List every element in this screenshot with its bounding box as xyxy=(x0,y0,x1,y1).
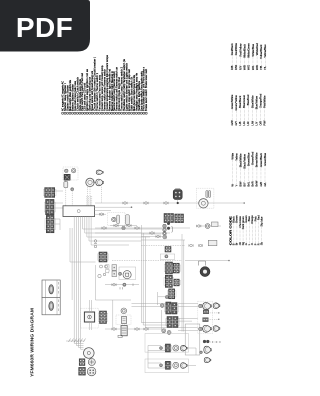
hl connector 2 xyxy=(203,318,209,322)
svg-text:Red/Black: Red/Black xyxy=(230,43,234,56)
wire xyxy=(91,196,93,206)
wire xyxy=(203,312,219,314)
wire xyxy=(105,328,166,330)
svg-text:Black/Yellow: Black/Yellow xyxy=(243,154,247,169)
connector block J16 xyxy=(171,303,179,314)
wire xyxy=(71,228,73,300)
parts legend (rotated numbered list) xyxy=(62,54,149,114)
wire xyxy=(82,228,84,229)
wire xyxy=(148,345,161,347)
svg-text:Blue/Red: Blue/Red xyxy=(246,94,250,105)
tail lamp connectors xyxy=(203,340,210,343)
inline connector xyxy=(156,235,160,238)
wire xyxy=(89,240,141,242)
connector block J7 xyxy=(164,262,174,274)
connector block J9 xyxy=(164,275,174,287)
bracket xyxy=(172,226,173,233)
wire xyxy=(83,228,162,230)
wire xyxy=(88,228,90,241)
terminal xyxy=(167,331,171,335)
terminal xyxy=(165,296,168,299)
contact dot xyxy=(167,222,170,225)
wire xyxy=(110,225,137,227)
CDI unit xyxy=(63,206,95,217)
svg-text:Pink/White: Pink/White xyxy=(262,95,266,108)
colour code column 2 (rotated) xyxy=(230,93,266,125)
wire xyxy=(86,217,88,229)
wire xyxy=(161,310,163,330)
inline connector xyxy=(135,328,139,331)
fuse body xyxy=(125,215,129,225)
indicator bulb 1 xyxy=(96,170,103,175)
svg-text:White/Red: White/Red xyxy=(255,43,259,56)
wire xyxy=(112,300,114,329)
connector block JH2 xyxy=(175,214,184,223)
main switch xyxy=(123,271,131,279)
svg-text:L/Y: L/Y xyxy=(254,121,258,125)
tick symbols xyxy=(120,284,133,290)
starter relay enclosure xyxy=(116,315,131,325)
connector block JH1 xyxy=(164,214,174,223)
connector block J2 xyxy=(44,199,55,214)
svg-text:Yellow/Black: Yellow/Black xyxy=(259,44,263,59)
wire xyxy=(178,306,198,308)
magneto connector 4 xyxy=(87,367,96,376)
inline connector xyxy=(123,283,126,286)
inline connector xyxy=(197,225,201,228)
terminal xyxy=(162,329,166,333)
PDF badge xyxy=(0,0,90,52)
wire xyxy=(59,219,61,230)
wire xyxy=(90,300,92,312)
svg-text:G/B: G/B xyxy=(259,182,263,187)
inline connector xyxy=(127,224,131,227)
relay connector xyxy=(121,308,127,314)
wire xyxy=(84,217,86,229)
inline connector xyxy=(102,227,106,230)
svg-text:Green/White: Green/White xyxy=(230,94,234,109)
wire xyxy=(185,260,229,262)
lead bracket xyxy=(93,179,95,183)
wire xyxy=(70,261,96,263)
wire xyxy=(132,303,166,305)
wire xyxy=(88,322,90,330)
junction dot xyxy=(131,206,133,208)
headlight lens 1 xyxy=(213,303,220,309)
wire xyxy=(178,320,192,322)
tail terminal xyxy=(200,351,203,354)
wire xyxy=(145,327,167,329)
inline connector xyxy=(122,226,125,229)
connector block J13 xyxy=(98,252,109,262)
terminal xyxy=(119,272,122,275)
inline connector xyxy=(164,202,168,205)
wire xyxy=(80,217,82,229)
svg-text:Brown/White: Brown/White xyxy=(255,152,259,167)
wire xyxy=(77,217,79,229)
wire xyxy=(84,228,86,233)
junction box xyxy=(185,324,200,355)
colour code column 1 (rotated) xyxy=(230,43,267,70)
ignition coil enclosure xyxy=(63,167,78,180)
svg-text:Br/L: Br/L xyxy=(247,181,251,186)
wire xyxy=(95,227,190,229)
svg-text:L/G: L/G xyxy=(242,121,246,125)
wire xyxy=(148,350,165,352)
svg-text:G/Y: G/Y xyxy=(234,121,238,126)
headlight lens 2 xyxy=(213,326,220,332)
coil terminal xyxy=(65,169,68,172)
wire xyxy=(73,217,75,229)
svg-text:G/L: G/L xyxy=(263,182,267,187)
tail/brake light 2 xyxy=(204,357,211,362)
connector block J10 xyxy=(173,279,181,286)
fan motor brushes xyxy=(206,191,211,198)
breaker terminal xyxy=(112,217,116,221)
wire xyxy=(65,188,67,206)
coil lead connector xyxy=(71,188,74,191)
horn bracket xyxy=(199,261,206,266)
wire xyxy=(178,327,198,329)
inline connector xyxy=(198,244,202,247)
relay terminal xyxy=(165,255,168,258)
battery xyxy=(118,326,127,338)
headlight connector 1 xyxy=(199,304,202,307)
svg-text:Green/Blue: Green/Blue xyxy=(263,152,267,166)
connector block J19 xyxy=(164,361,172,369)
svg-text:Brown/Red: Brown/Red xyxy=(251,151,255,164)
svg-text:Sb: Sb xyxy=(260,241,264,245)
wire xyxy=(82,217,84,229)
wire xyxy=(203,318,219,320)
svg-text:R/W: R/W xyxy=(234,64,238,70)
wire xyxy=(177,200,179,204)
contact dot xyxy=(167,227,170,230)
svg-text:Green/Black: Green/Black xyxy=(259,152,263,167)
svg-text:Yellow: Yellow xyxy=(234,153,238,161)
wire xyxy=(132,306,166,308)
small connectors xyxy=(105,265,109,273)
inline connector xyxy=(144,328,148,331)
wire xyxy=(75,217,77,229)
relay enclosure xyxy=(160,254,174,259)
terminal a xyxy=(163,224,166,227)
wire xyxy=(210,341,221,343)
terminal xyxy=(160,304,164,308)
inline connector xyxy=(189,244,193,247)
svg-text:White/Blue: White/Blue xyxy=(251,43,255,56)
svg-text:L/R: L/R xyxy=(246,121,250,125)
thermo switch connector xyxy=(173,188,182,199)
connector block J8 xyxy=(172,263,181,273)
terminal xyxy=(160,364,163,367)
svg-text:B/Y: B/Y xyxy=(243,182,247,186)
wire xyxy=(141,236,165,238)
wire xyxy=(178,317,198,319)
inline connector xyxy=(112,328,116,331)
connector block J4 xyxy=(165,247,171,253)
svg-text:Blue/Green: Blue/Green xyxy=(242,94,246,108)
wire xyxy=(73,340,75,343)
terminal xyxy=(160,347,163,350)
svg-text:G/W: G/W xyxy=(230,120,234,126)
wire xyxy=(178,330,198,332)
rear brake switch xyxy=(173,345,179,351)
terminal c xyxy=(163,232,166,235)
wire xyxy=(95,202,244,204)
fuse holder stack xyxy=(112,265,117,277)
wire xyxy=(141,239,185,241)
headlight bulb 2 xyxy=(203,325,212,332)
wire xyxy=(80,228,82,343)
wire xyxy=(86,228,88,237)
wire xyxy=(75,228,77,343)
svg-text:White/Black: White/Black xyxy=(242,43,246,57)
svg-text:R/B: R/B xyxy=(230,65,234,70)
diode box xyxy=(208,240,217,245)
wire xyxy=(55,190,63,192)
connector xyxy=(205,224,210,229)
connector block J14 xyxy=(98,311,108,324)
wire xyxy=(76,344,83,346)
indicator bulb 2 xyxy=(96,179,104,186)
svg-text:Black/White: Black/White xyxy=(239,153,243,167)
svg-text:Sky blue: Sky blue xyxy=(260,216,264,227)
wire xyxy=(77,228,79,343)
connector block J3 xyxy=(45,215,55,232)
wire xyxy=(54,207,63,209)
svg-text:Brake lever switch Brake lever: Brake lever switch Brake lever swit xyxy=(145,69,148,111)
coil cap xyxy=(71,168,75,172)
wire xyxy=(85,232,170,234)
wire xyxy=(142,233,144,325)
wire xyxy=(96,299,132,301)
wire xyxy=(88,217,90,229)
svg-text:White/Green: White/Green xyxy=(247,43,251,58)
wire xyxy=(140,225,142,323)
wire xyxy=(195,348,197,355)
wire xyxy=(73,228,75,343)
connector detail box B xyxy=(42,297,60,314)
wire xyxy=(141,233,161,235)
svg-text:YFM660R WIRING DIAGRAM: YFM660R WIRING DIAGRAM xyxy=(30,308,35,377)
svg-text:Y/L: Y/L xyxy=(263,66,267,70)
AC magneto xyxy=(84,348,95,359)
ground hatch marks xyxy=(69,339,86,343)
wire xyxy=(77,340,79,347)
wire xyxy=(196,225,221,227)
svg-text:Br/R: Br/R xyxy=(251,181,255,186)
connector detail box A xyxy=(42,280,60,297)
magneto connector 2 xyxy=(88,359,95,366)
wire xyxy=(75,340,77,345)
wire xyxy=(54,218,60,220)
wire xyxy=(89,187,91,206)
wire xyxy=(54,202,63,204)
wire xyxy=(141,245,185,247)
colour code column 4 (rotated) xyxy=(232,215,264,245)
spark plug xyxy=(64,180,68,188)
svg-text:O/R: O/R xyxy=(258,121,262,126)
junction dot xyxy=(177,202,179,204)
wire xyxy=(88,300,90,312)
wire xyxy=(187,347,196,349)
headlight bulb 1 xyxy=(203,303,212,310)
wire xyxy=(87,236,150,238)
hl connector xyxy=(203,310,209,314)
colour code column 3 (rotated) xyxy=(230,151,266,186)
wire loop frame 2 xyxy=(145,359,189,373)
wire xyxy=(144,237,146,328)
inline connector xyxy=(112,283,116,286)
wire loop frame 1 xyxy=(145,334,189,353)
brake bulb 2 xyxy=(181,363,188,369)
wire xyxy=(112,260,182,262)
connector block J18 xyxy=(164,344,172,352)
wire xyxy=(148,362,161,364)
connector block J15 xyxy=(165,302,173,314)
inline connector xyxy=(114,224,118,227)
wire xyxy=(95,265,97,300)
wire xyxy=(187,364,196,366)
connector block J12 xyxy=(167,289,176,299)
wire xyxy=(74,342,83,344)
svg-text:Yellow/Blue: Yellow/Blue xyxy=(263,44,267,58)
fan motor enclosure xyxy=(196,188,214,208)
svg-text:L/B: L/B xyxy=(238,121,242,125)
wire xyxy=(95,213,106,215)
wire xyxy=(178,303,198,305)
inline connector xyxy=(123,202,127,205)
wire xyxy=(158,296,169,298)
wire xyxy=(86,196,88,206)
inline connector xyxy=(99,213,103,216)
svg-text:Y/B: Y/B xyxy=(259,66,263,70)
terminal b xyxy=(163,228,166,231)
front brake switch xyxy=(173,362,179,368)
wire xyxy=(90,322,92,330)
wire xyxy=(69,228,71,262)
wire xyxy=(90,228,92,245)
svg-text:Red/White: Red/White xyxy=(234,43,238,56)
headlight enclosure xyxy=(198,301,213,333)
terminal pairs xyxy=(98,265,108,278)
wire xyxy=(80,340,82,349)
wire xyxy=(143,324,167,326)
wire xyxy=(141,322,167,324)
wire xyxy=(54,223,60,225)
rectifier/regulator xyxy=(84,312,94,322)
wire xyxy=(71,191,73,206)
svg-text:Red/Yellow: Red/Yellow xyxy=(238,43,242,56)
ignition coil body xyxy=(64,174,70,180)
wire xyxy=(66,340,84,342)
wire xyxy=(101,187,103,203)
wire xyxy=(105,284,139,286)
magneto connector 1 xyxy=(79,359,85,366)
tail/brake light xyxy=(204,346,212,353)
connector block J17 xyxy=(166,317,180,328)
svg-text:Br/W: Br/W xyxy=(255,180,259,186)
svg-text:White: White xyxy=(230,152,234,159)
svg-text:Blue/White: Blue/White xyxy=(250,95,254,108)
wire xyxy=(147,346,149,369)
svg-text:R/Y: R/Y xyxy=(238,65,242,70)
wire xyxy=(157,292,159,305)
headlight connector 2 xyxy=(199,327,202,330)
wire xyxy=(95,210,111,212)
inline connector xyxy=(144,202,148,205)
wire xyxy=(181,234,183,332)
connector block J1 xyxy=(43,188,56,198)
wire xyxy=(91,244,129,246)
rectifier/regulator enclosure xyxy=(81,308,99,328)
wire xyxy=(90,217,92,229)
horn xyxy=(200,267,210,277)
fan motor xyxy=(199,199,208,208)
svg-text:Green/Yellow: Green/Yellow xyxy=(234,95,238,110)
speed sensor xyxy=(86,178,94,186)
relay box xyxy=(212,222,219,227)
wire xyxy=(87,187,89,206)
terminal d xyxy=(163,235,167,239)
breaker body xyxy=(117,215,120,224)
svg-text:Blue/Yellow: Blue/Yellow xyxy=(254,96,258,109)
starter relay xyxy=(122,316,127,323)
wire xyxy=(183,240,185,332)
wire xyxy=(87,196,89,206)
wire xyxy=(78,346,83,348)
svg-text:Brown/Blue: Brown/Blue xyxy=(247,152,251,166)
circuit breaker enclosure xyxy=(108,213,126,226)
magneto connector 3 xyxy=(79,367,86,375)
wire xyxy=(89,196,91,206)
svg-text:PDF: PDF xyxy=(16,12,73,43)
wire xyxy=(148,367,165,369)
svg-text:Orange/Red: Orange/Red xyxy=(258,93,262,108)
main switch enclosure xyxy=(119,267,136,280)
brake bulb 1 xyxy=(181,345,188,351)
svg-text:Blue/Black: Blue/Black xyxy=(238,95,242,108)
inline connector xyxy=(150,232,154,235)
wire xyxy=(95,206,132,208)
wire xyxy=(95,232,141,234)
small connectors on vertical run xyxy=(94,240,97,248)
wire xyxy=(81,348,84,350)
inline connector xyxy=(135,227,139,230)
